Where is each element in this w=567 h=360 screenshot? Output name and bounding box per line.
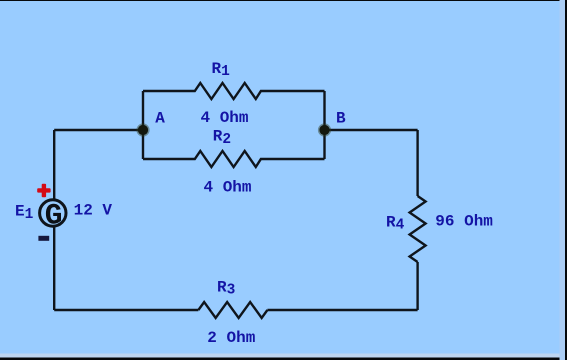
wire: left vertical lower segment bbox=[53, 226, 55, 310]
svg-text:G: G bbox=[45, 199, 63, 233]
voltage source E1 (circle) bbox=[40, 200, 66, 226]
wire: bottom left segment bbox=[54, 309, 198, 311]
wire: parallel block left vertical bbox=[142, 91, 144, 159]
wire: left vertical upper segment bbox=[53, 130, 55, 200]
resistor R2 bbox=[143, 151, 325, 167]
svg-text:R4: R4 bbox=[386, 213, 405, 233]
node A bbox=[136, 123, 149, 136]
wire: right vertical upper segment bbox=[416, 130, 418, 196]
svg-text:A: A bbox=[155, 109, 165, 127]
svg-text:R3: R3 bbox=[217, 278, 235, 298]
svg-text:R1: R1 bbox=[212, 60, 231, 80]
svg-text:R2: R2 bbox=[213, 128, 231, 148]
svg-text:4 Ohm: 4 Ohm bbox=[204, 179, 252, 197]
resistor R4 bbox=[410, 196, 426, 262]
E1 minus terminal bbox=[38, 236, 49, 241]
wire: right vertical lower segment bbox=[416, 262, 418, 310]
svg-text:2 Ohm: 2 Ohm bbox=[207, 329, 255, 347]
svg-text:E1: E1 bbox=[15, 202, 34, 222]
window frame edges (decorative) bbox=[0, 0, 567, 1]
wire: parallel block right vertical bbox=[323, 91, 325, 159]
svg-text:4 Ohm: 4 Ohm bbox=[201, 109, 249, 127]
wire: bottom right segment bbox=[267, 309, 417, 311]
resistor R1 bbox=[143, 83, 325, 99]
svg-text:96 Ohm: 96 Ohm bbox=[435, 213, 493, 231]
wire: node B to top-right corner bbox=[325, 129, 418, 131]
wire: E1 positive side to node A (horizontal) bbox=[54, 129, 143, 131]
E1 plus terminal bbox=[37, 184, 50, 197]
resistor R3 bbox=[198, 302, 267, 318]
svg-text:B: B bbox=[336, 110, 346, 128]
node B bbox=[318, 123, 331, 136]
svg-text:12 V: 12 V bbox=[74, 202, 113, 220]
